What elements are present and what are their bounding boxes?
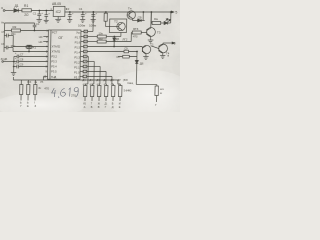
svg-text:ОГ: ОГ: [58, 36, 63, 40]
svg-text:Р3.2: Р3.2: [51, 55, 57, 59]
MCU box: [47, 30, 81, 79]
svg-text:Д5: Д5: [116, 37, 120, 41]
capacitor C11: [13, 60, 48, 64]
transistor T2: [117, 22, 126, 30]
svg-text:Р3.4: Р3.4: [51, 65, 57, 69]
ground under T4: [160, 56, 165, 59]
ground under C2: [44, 20, 49, 23]
regulator IC2 box: [53, 6, 65, 16]
resistor R1: [22, 9, 54, 12]
transistor T5: [142, 45, 151, 56]
capacitor C8 30p: [4, 46, 11, 50]
resistor RA1: [83, 86, 87, 102]
svg-text:Р1.0: Р1.0: [74, 70, 80, 74]
svg-text:Р1.5: Р1.5: [75, 45, 81, 49]
ground under T3: [148, 40, 154, 43]
capacitor C9: [124, 47, 129, 53]
plus marks: [15, 12, 98, 65]
svg-text:6: 6: [174, 41, 176, 45]
svg-text:Д: Д: [112, 105, 114, 109]
resistor R2: [4, 29, 48, 32]
svg-text:100м: 100м: [89, 24, 96, 28]
capacitor C7 33p: [4, 34, 11, 38]
svg-text:Д1: Д1: [14, 4, 18, 8]
transistor T4: [151, 42, 175, 56]
svg-text:Х1: Х1: [33, 46, 37, 50]
resistor designators row: [82, 79, 128, 82]
diode D1: [14, 9, 23, 13]
capacitor C2: [44, 10, 48, 20]
enclosure box around T2: [109, 19, 126, 33]
svg-text:НС: НС: [39, 40, 43, 44]
svg-text:ХТАЛ1: ХТАЛ1: [51, 50, 60, 54]
ground under C5: [91, 20, 96, 23]
svg-text:Э: Э: [1, 6, 3, 10]
svg-text:Р1.6: Р1.6: [75, 40, 81, 44]
ground under C3: [67, 20, 72, 23]
label NC pin2: [39, 35, 49, 39]
input terminal 9~: [1, 6, 14, 11]
bottom pin letters: [83, 102, 121, 109]
svg-text:юч: юч: [160, 87, 164, 91]
svg-text:470: 470: [133, 35, 138, 39]
right pin numbers: [83, 31, 87, 78]
svg-text:Т3: Т3: [157, 31, 161, 35]
capacitor C3: [68, 12, 72, 20]
resistor RA5: [111, 86, 115, 102]
resistor RA3: [97, 86, 101, 102]
pin element P1: [19, 80, 23, 101]
wire P1.4: [87, 51, 138, 55]
svg-text:IC2: IC2: [56, 10, 61, 14]
+5V rail wire: [65, 11, 174, 13]
Vcc wire: [88, 11, 94, 31]
svg-text:Р1.3: Р1.3: [74, 55, 80, 59]
transistor T1: [127, 11, 136, 21]
svg-text:З=дБ: З=дБ: [1, 57, 8, 61]
svg-text:ХТАЛ2: ХТАЛ2: [52, 45, 61, 49]
right pin boxes and stubs: [80, 30, 88, 78]
svg-text:РСТ: РСТ: [52, 30, 58, 34]
svg-text:5-й4Ю: 5-й4Ю: [124, 89, 132, 93]
capacitor C4 100u: [81, 12, 85, 20]
resistor 10k: [87, 33, 121, 39]
resistor Ra top right: [151, 11, 161, 24]
pin element P3: [33, 80, 37, 101]
svg-text:Д6: Д6: [140, 62, 144, 66]
left bus wire: [4, 23, 35, 52]
wire bus2: [86, 62, 94, 86]
svg-text:Усс: Усс: [76, 30, 81, 34]
vertical wire x137: [135, 55, 138, 85]
crystal X1: [26, 45, 32, 52]
svg-text:5: 5: [175, 10, 177, 14]
right pin names: [74, 30, 81, 79]
svg-text:Rа: Rа: [154, 17, 158, 21]
wire to R bottom right: [136, 85, 157, 87]
gnd pin wire: [43, 77, 47, 81]
svg-text:Сжщ: Сжщ: [127, 81, 134, 85]
wire bus1: [85, 57, 88, 86]
resistor RA2: [90, 86, 94, 102]
wire bus4: [86, 72, 106, 86]
svg-text:Т2: Т2: [114, 20, 118, 24]
wire bus5: [86, 77, 113, 86]
capacitor C12: [13, 65, 48, 69]
diode D5: [113, 36, 116, 47]
svg-text:270: 270: [71, 94, 76, 98]
ground under bus: [11, 73, 16, 76]
left pin letters: [20, 101, 37, 108]
handwritten note 4,61 9: [52, 88, 79, 99]
resistor R16: [155, 86, 159, 102]
svg-text:АВ-05: АВ-05: [52, 2, 61, 6]
label NC pin3: [39, 40, 49, 44]
capacitor C10: [14, 55, 48, 59]
resistor RA4: [104, 86, 108, 102]
left small labels row: [27, 82, 44, 84]
wire xtal1: [11, 48, 49, 52]
pin element P2: [26, 80, 30, 101]
svg-text:ГНД: ГНД: [51, 75, 56, 79]
svg-text:470: 470: [44, 87, 49, 91]
ground under T5: [143, 57, 148, 60]
paper background: [0, 0, 180, 112]
wire bus3: [86, 67, 100, 86]
left pin names: [51, 45, 61, 79]
svg-text:ЮЗ: ЮЗ: [27, 82, 31, 84]
svg-text:Р3.3: Р3.3: [51, 60, 57, 64]
svg-text:100м: 100м: [78, 24, 85, 28]
resistor R4 vertical: [104, 11, 117, 26]
ground under IC2: [55, 19, 61, 22]
svg-text:Р3.5: Р3.5: [51, 70, 57, 74]
pin 2 stub: [57, 17, 59, 20]
diode D6 on vertical: [135, 61, 138, 64]
LED D9 with arrows: [161, 11, 172, 24]
svg-text:2О: 2О: [24, 13, 29, 17]
capacitor C1: [37, 10, 41, 20]
transistor T3: [146, 12, 155, 40]
capacitor C6 reset: [33, 23, 37, 31]
svg-text:ЯТЗ: ЯТЗ: [133, 27, 139, 31]
wire P1.5: [87, 46, 142, 48]
svg-text:СВ: СВ: [138, 15, 142, 19]
capacitor C5 100u: [91, 12, 95, 20]
svg-text:Р1.2: Р1.2: [74, 60, 80, 64]
cap bus vertical: [13, 57, 15, 73]
svg-text:ЛГ2: ЛГ2: [122, 38, 128, 42]
diode D8: [134, 19, 145, 22]
svg-text:И: И: [119, 102, 121, 106]
svg-text:С1: С1: [33, 12, 37, 16]
wire xtal2: [11, 36, 49, 47]
component C10 lower: [116, 55, 137, 59]
bottom rail wire: [13, 77, 118, 80]
svg-text:Д: Д: [105, 102, 107, 106]
svg-text:ж: ж: [160, 92, 162, 95]
input terminal 3dB: [2, 61, 14, 63]
svg-text:R2: R2: [12, 25, 16, 29]
left pin numbers: [43, 30, 48, 79]
svg-text:Р3.7: Р3.7: [74, 75, 80, 79]
resistor 91k: [87, 40, 131, 43]
junction node: [143, 11, 144, 20]
svg-text:ДР: ДР: [117, 79, 121, 82]
ground under C4: [80, 20, 85, 23]
resistor values row: [83, 84, 121, 86]
svg-text:Ю: Ю: [83, 102, 86, 106]
resistor RA6: [118, 86, 122, 102]
ground under C1: [36, 20, 41, 23]
svg-text:R1: R1: [24, 4, 29, 8]
svg-text:НС: НС: [39, 35, 43, 39]
wire bus6: [118, 80, 121, 86]
svg-text:Тн: Тн: [128, 7, 132, 11]
resistor R13 470: [131, 31, 147, 42]
svg-text:Р1.7: Р1.7: [75, 35, 81, 39]
svg-text:Р1.1: Р1.1: [74, 65, 80, 69]
svg-text:Р1.4: Р1.4: [74, 50, 80, 54]
